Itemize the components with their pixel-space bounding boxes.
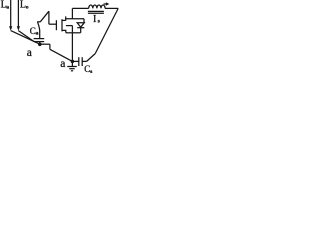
diode D1 cathode bar	[77, 27, 84, 29]
capacitor C2 (Cs) left plate	[78, 57, 80, 66]
wire junction to Cs	[72, 60, 78, 62]
wire diagonal to gate net	[40, 11, 49, 22]
svg-text:s: s	[98, 18, 101, 24]
wire gate net horizontal	[49, 23, 57, 25]
wire top rail	[72, 7, 88, 9]
wire diagonal A (branch1 to node of Ca)	[11, 31, 40, 44]
transistor Q1 channel bar	[61, 19, 63, 31]
ground bar 3	[71, 70, 73, 72]
svg-text:I: I	[93, 14, 96, 25]
transistor Q1 source stub	[62, 30, 66, 32]
wire branch 1 (current arrow La)	[10, 0, 12, 27]
svg-text:o: o	[26, 4, 29, 10]
wire ground lead	[71, 61, 73, 66]
svg-text:a: a	[6, 4, 9, 10]
wire Ca top lead	[38, 22, 40, 38]
ground bar 2	[69, 68, 74, 70]
arrowhead branch 2	[17, 26, 20, 31]
capacitor C1 (Ca) bottom plate	[34, 41, 45, 43]
transistor Q1 body stub	[66, 25, 73, 27]
arrowhead Is	[106, 2, 109, 6]
svg-text:s: s	[90, 69, 93, 75]
svg-text:a: a	[60, 58, 65, 70]
current arrow Is tail	[104, 3, 107, 5]
wire Ca bottom lead	[39, 42, 41, 44]
inductor L1 (saturable) winding	[89, 5, 105, 8]
svg-text:a: a	[27, 47, 32, 59]
transistor Q1 gate plate	[55, 20, 57, 30]
wire branch 2 (current arrow Lo)	[17, 0, 19, 27]
inductor L1 core line 2	[88, 12, 104, 14]
diode D1 triangle	[77, 23, 84, 28]
wire node to junction vertical	[49, 44, 51, 49]
wire main vertical to junction	[71, 26, 73, 62]
wire diode top bar	[66, 18, 84, 20]
wire right diagonal upper	[95, 8, 118, 53]
junction dot at Ca node	[38, 43, 42, 47]
inductor L1 core line 1	[88, 10, 104, 12]
wire gate net vertical	[48, 11, 50, 24]
wire source bar	[66, 32, 81, 34]
junction dot at ground node	[71, 60, 75, 64]
svg-text:a: a	[36, 30, 39, 36]
wire node to junction horizontal	[40, 43, 50, 45]
wire Cs right lead	[82, 60, 86, 62]
capacitor C2 (Cs) right plate	[81, 57, 83, 66]
ground bar 1	[67, 66, 77, 68]
wire node to junction diagonal	[50, 49, 73, 61]
arrowhead branch 1	[9, 26, 12, 31]
transistor Q1 drain stub	[62, 19, 66, 21]
diode D1 bottom lead	[80, 28, 82, 33]
wire right diagonal lower	[87, 54, 96, 62]
wire corner at Ca top	[37, 21, 40, 23]
wire top rail right	[105, 7, 118, 9]
wire diagonal B (branch2 to Ca bottom plate)	[18, 31, 34, 42]
capacitor C1 (Ca) top plate	[34, 38, 45, 40]
